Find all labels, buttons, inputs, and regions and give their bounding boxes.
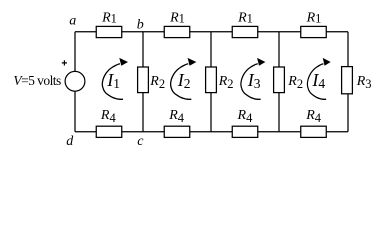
label I4	[311, 70, 325, 91]
node d	[66, 134, 74, 149]
svg-text:R4: R4	[237, 108, 254, 125]
mesh current arrow I2	[171, 58, 197, 99]
voltage source V	[65, 71, 85, 91]
svg-text:R4: R4	[305, 108, 322, 125]
label R1 mesh3	[237, 10, 253, 25]
label R4 mesh2	[168, 108, 185, 125]
wire: third vertical branch	[210, 32, 212, 132]
svg-text:R1: R1	[101, 10, 117, 25]
resistor R4 mesh4	[301, 126, 327, 137]
svg-text:R4: R4	[100, 108, 117, 125]
resistor R1 mesh1	[96, 26, 122, 37]
resistor R1 mesh3	[232, 26, 258, 37]
svg-text:R1: R1	[306, 10, 322, 25]
svg-text:I3: I3	[247, 70, 261, 91]
label I1	[106, 70, 120, 91]
polarity + sign	[62, 60, 67, 65]
wire: left vertical branch a-d with source	[74, 32, 76, 132]
svg-text:R1: R1	[237, 10, 253, 25]
resistor R3	[342, 67, 353, 94]
label V = 5 volts	[13, 73, 61, 88]
wire: bottom rail from node d to bottom-right corner	[75, 131, 348, 133]
svg-text:R1: R1	[169, 10, 185, 25]
resistor R2 branch2	[206, 67, 217, 93]
mesh current arrow I3	[241, 58, 265, 99]
wire: top rail from node a to top-right corner	[75, 31, 348, 33]
svg-text:a: a	[69, 14, 76, 29]
resistor R4 mesh2	[164, 126, 190, 137]
label R2 branch2	[218, 74, 234, 91]
svg-text:I2: I2	[177, 70, 191, 91]
svg-text:R3: R3	[356, 74, 372, 91]
wire: vertical branch b-c	[142, 32, 144, 132]
node a	[69, 14, 76, 29]
label R1 mesh1	[101, 10, 117, 25]
wire: right vertical branch	[347, 32, 349, 132]
svg-text:V=5 volts: V=5 volts	[13, 73, 61, 88]
resistor R2 branch3	[274, 67, 285, 93]
label R1 mesh2	[169, 10, 185, 25]
label R4 mesh1	[100, 108, 117, 125]
label I2	[177, 70, 191, 91]
wire: fourth vertical branch	[278, 32, 280, 132]
svg-text:R2: R2	[218, 74, 234, 91]
mesh current arrow I1	[102, 58, 128, 99]
svg-text:R2: R2	[149, 74, 165, 91]
svg-text:d: d	[66, 134, 74, 149]
svg-text:I1: I1	[106, 70, 120, 91]
node b	[137, 17, 144, 32]
label R1 mesh4	[306, 10, 322, 25]
resistor R4 mesh3	[232, 126, 258, 137]
label R4 mesh4	[305, 108, 322, 125]
svg-text:R4: R4	[168, 108, 185, 125]
node c	[137, 134, 144, 149]
resistor R2 branch1	[138, 67, 149, 93]
label R4 mesh3	[237, 108, 254, 125]
label R2 branch1	[149, 74, 165, 91]
svg-text:b: b	[137, 17, 144, 32]
svg-text:I4: I4	[311, 70, 325, 91]
label R2 branch3	[287, 74, 303, 91]
resistor R4 mesh1	[96, 126, 122, 137]
label R3	[356, 74, 372, 91]
mesh current arrow I4	[307, 58, 330, 99]
label I3	[247, 70, 261, 91]
svg-text:c: c	[137, 134, 144, 149]
resistor R1 mesh4	[301, 26, 327, 37]
svg-text:R2: R2	[287, 74, 303, 91]
resistor R1 mesh2	[164, 26, 190, 37]
